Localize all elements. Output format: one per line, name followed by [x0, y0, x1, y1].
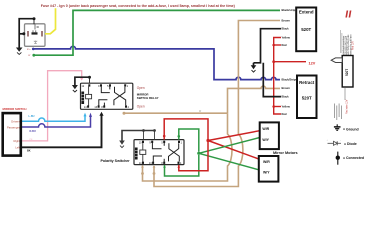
svg-text:Retract: Retract: [299, 80, 315, 85]
svg-text:= Ground: = Ground: [343, 128, 359, 132]
svg-text:L-BU: L-BU: [29, 115, 35, 118]
svg-text:D-BU: D-BU: [30, 130, 36, 133]
svg-text:= Connected: = Connected: [343, 156, 364, 160]
svg-text:W/R: W/R: [263, 160, 270, 164]
svg-text:Open: Open: [137, 86, 145, 90]
svg-text:Mirror Motors: Mirror Motors: [273, 151, 298, 155]
svg-text:Yellow: Yellow: [282, 35, 291, 39]
svg-text:W/Y: W/Y: [263, 170, 270, 174]
svg-text:Red: Red: [282, 43, 287, 47]
svg-text:Yellow: Yellow: [282, 104, 291, 108]
svg-text:Red: Red: [282, 112, 287, 116]
svg-text:Right: Right: [14, 139, 21, 143]
svg-text:Drivers: Drivers: [11, 119, 20, 123]
svg-text:MIRROR SWITCH: MIRROR SWITCH: [3, 107, 27, 111]
svg-text:Brown: Brown: [282, 18, 291, 22]
svg-text:SWITCH RELAY: SWITCH RELAY: [137, 96, 159, 100]
svg-text:Left: Left: [15, 145, 20, 149]
svg-text:Black/Stripe: Black/Stripe: [282, 77, 298, 81]
svg-text:W/Y: W/Y: [262, 138, 269, 142]
svg-text:Fuse #47 - Ign 0 (under back p: Fuse #47 - Ign 0 (under back passenger s…: [41, 4, 236, 8]
svg-text:Black/stripe: Black/stripe: [282, 8, 298, 12]
svg-text:Polarity Switcher: Polarity Switcher: [101, 159, 131, 163]
svg-text:520T: 520T: [301, 27, 311, 32]
svg-text:12V: 12V: [309, 61, 316, 65]
svg-text:= Diode: = Diode: [344, 142, 357, 146]
svg-text:Extend: Extend: [299, 10, 314, 15]
svg-text:Red 12V: Red 12V: [353, 41, 355, 50]
svg-text:Open: Open: [137, 105, 145, 109]
svg-text:Passenger: Passenger: [7, 125, 20, 129]
svg-text:520T: 520T: [302, 96, 312, 101]
svg-text:Black: Black: [282, 27, 290, 31]
svg-text:W/R: W/R: [262, 127, 269, 131]
svg-text:Brown: Brown: [282, 86, 291, 90]
svg-text:Black: Black: [282, 94, 290, 98]
svg-text:520T: 520T: [345, 69, 349, 76]
svg-text:Red wire 12V: Red wire 12V: [345, 99, 348, 114]
svg-text:BK: BK: [27, 150, 31, 153]
